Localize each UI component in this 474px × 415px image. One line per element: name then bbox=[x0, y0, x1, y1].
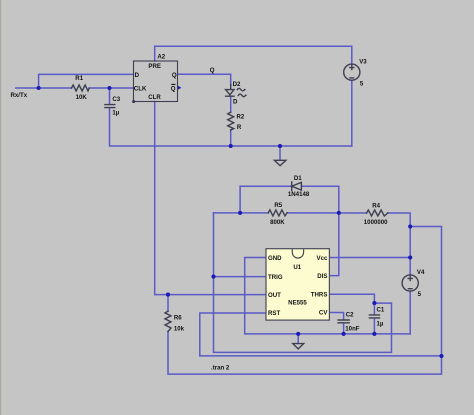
voltage source V3 bbox=[344, 64, 360, 80]
svg-text:D1: D1 bbox=[294, 175, 302, 182]
node R5 left bbox=[238, 211, 242, 215]
svg-text:800K: 800K bbox=[270, 219, 285, 226]
svg-text:R4: R4 bbox=[372, 203, 380, 210]
svg-text:A2: A2 bbox=[157, 53, 165, 60]
wire TRIG stub bbox=[214, 276, 267, 278]
node ground 555 bbox=[296, 332, 300, 336]
LED D2 light arrows bbox=[237, 88, 245, 96]
pin marker unconnected corner bbox=[132, 100, 135, 103]
resistor R6 bbox=[165, 311, 171, 331]
svg-text:D: D bbox=[135, 72, 140, 79]
wire GND pin loop to ground rail bbox=[245, 258, 411, 334]
wire C3 bottom to ground rail bbox=[110, 108, 352, 146]
wire R6 bottom to bottom rail bbox=[168, 227, 442, 375]
svg-text:Vcc: Vcc bbox=[317, 255, 328, 262]
wire Q output to D2 bbox=[178, 74, 231, 85]
wire V3 minus down to rail bbox=[351, 80, 353, 146]
svg-text:1µ: 1µ bbox=[377, 321, 384, 328]
wire DIS column bbox=[329, 213, 338, 276]
node R2 bottom bbox=[229, 144, 233, 148]
resistor R2 bbox=[228, 112, 234, 130]
svg-text:.tran 2: .tran 2 bbox=[211, 365, 230, 372]
svg-text:NE555: NE555 bbox=[288, 300, 307, 307]
svg-text:10nF: 10nF bbox=[345, 325, 360, 332]
node Rx/Tx junction bbox=[37, 86, 41, 90]
wire CV to C2 bbox=[329, 313, 343, 320]
wire RST loop bbox=[200, 313, 442, 356]
wire R4 right to V4 column bbox=[388, 213, 411, 275]
svg-text:Q: Q bbox=[171, 85, 176, 92]
resistor R4 bbox=[367, 210, 388, 216]
svg-text:R: R bbox=[237, 124, 242, 131]
node C3 junction bbox=[107, 86, 111, 90]
wire R2 bottom to rail bbox=[230, 130, 232, 146]
svg-text:R6: R6 bbox=[174, 315, 182, 322]
node OUT/R6 bbox=[166, 293, 170, 297]
wire V4 bottom column bbox=[409, 291, 411, 334]
svg-text:U1: U1 bbox=[293, 264, 301, 271]
svg-text:C2: C2 bbox=[346, 311, 354, 318]
svg-text:D2: D2 bbox=[233, 81, 241, 88]
svg-text:1N4148: 1N4148 bbox=[288, 191, 310, 198]
svg-text:1000000: 1000000 bbox=[364, 219, 388, 226]
wire R5 row left bbox=[214, 212, 269, 214]
svg-text:OUT: OUT bbox=[268, 292, 281, 299]
wire ground stub top circuit bbox=[279, 146, 281, 160]
wire CLR column down to OUT row bbox=[155, 102, 266, 295]
node RST/right column bbox=[439, 354, 443, 358]
ground 555 bbox=[293, 344, 304, 349]
svg-text:1µ: 1µ bbox=[112, 109, 119, 116]
svg-text:RST: RST bbox=[268, 310, 280, 317]
IC U1 NE555 box bbox=[266, 249, 329, 320]
svg-text:DIS: DIS bbox=[317, 273, 327, 280]
resistor R1 bbox=[72, 85, 90, 91]
capacitor C2 bbox=[338, 320, 349, 323]
svg-text:10K: 10K bbox=[76, 94, 88, 101]
wire TRIG column wrap to THRS node bbox=[214, 213, 392, 353]
wire THRS to C1 node bbox=[329, 294, 374, 303]
node THRS/C1 bbox=[372, 301, 376, 305]
diode D2 LED body bbox=[226, 85, 234, 97]
flip-flop A2 box bbox=[132, 61, 181, 103]
wire Vcc row bbox=[329, 257, 410, 259]
node ground top bbox=[278, 144, 282, 148]
node C1 bottom bbox=[372, 332, 376, 336]
node V4 top bbox=[408, 224, 412, 228]
svg-text:PRE: PRE bbox=[148, 63, 161, 70]
svg-text:Rx/Tx: Rx/Tx bbox=[11, 92, 28, 99]
svg-text:C3: C3 bbox=[112, 96, 120, 103]
svg-text:C1: C1 bbox=[377, 307, 385, 314]
svg-text:CV: CV bbox=[319, 310, 328, 317]
svg-text:V4: V4 bbox=[417, 269, 425, 276]
ground top circuit bbox=[274, 160, 286, 165]
left screen edge artifact bbox=[0, 0, 1, 415]
resistor R5 bbox=[268, 210, 287, 216]
node C2 bottom bbox=[342, 332, 346, 336]
svg-text:D: D bbox=[233, 98, 238, 105]
node TRIG bbox=[211, 275, 215, 279]
wire R5 right to R4 node bbox=[287, 212, 367, 214]
svg-text:R5: R5 bbox=[274, 202, 282, 209]
wire PRE to top rail to V3 bbox=[155, 46, 352, 64]
svg-text:GND: GND bbox=[268, 255, 282, 262]
wire D2 cathode to R2 bbox=[230, 97, 232, 113]
node R4 left bbox=[337, 211, 341, 215]
wire D1 cathode to DIS column bbox=[301, 186, 338, 213]
svg-text:TRIG: TRIG bbox=[268, 274, 283, 281]
wire D1 branch bbox=[240, 186, 291, 213]
wire Rx/Tx input to R1 bbox=[16, 87, 72, 89]
wire ground stub 555 bbox=[297, 334, 299, 343]
svg-text:R2: R2 bbox=[237, 114, 245, 121]
voltage source V4 bbox=[402, 275, 418, 291]
wire C2 bottom lead bbox=[343, 323, 345, 334]
svg-text:V3: V3 bbox=[359, 58, 367, 65]
diode D1 bbox=[292, 182, 302, 190]
wire C1 bottom lead bbox=[373, 318, 375, 334]
wire C3 top lead bbox=[109, 88, 111, 104]
pin marker Qbar bubble bbox=[178, 86, 181, 90]
svg-text:Q: Q bbox=[172, 72, 177, 79]
svg-text:THRS: THRS bbox=[311, 292, 328, 299]
capacitor C1 bbox=[369, 315, 379, 318]
node Vcc bbox=[408, 255, 412, 259]
wire R6 top lead bbox=[167, 295, 169, 312]
capacitor C3 bbox=[105, 105, 115, 108]
svg-text:CLK: CLK bbox=[134, 85, 147, 92]
svg-text:R1: R1 bbox=[75, 75, 83, 82]
wire node to D pin bbox=[39, 74, 134, 88]
wire C1 top lead bbox=[373, 303, 375, 314]
svg-text:Q: Q bbox=[210, 67, 215, 74]
wire R1 to CLK pin (through C3 node) bbox=[89, 87, 133, 89]
svg-text:10k: 10k bbox=[174, 326, 185, 333]
svg-text:CLR: CLR bbox=[148, 94, 161, 101]
